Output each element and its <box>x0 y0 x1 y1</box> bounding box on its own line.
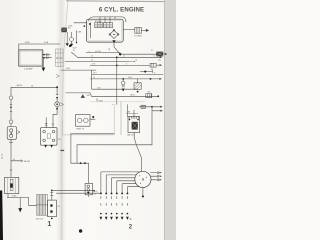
right vertical wire <box>139 107 152 145</box>
ground b <box>70 44 73 47</box>
ground triangle <box>18 208 22 212</box>
module cell row 2 <box>104 23 113 28</box>
svg-text:SPL: SPL <box>68 28 71 30</box>
faint low wire <box>90 101 145 103</box>
fuse block box <box>19 50 43 66</box>
gutter connector block B <box>56 59 64 67</box>
lamp circle 2 <box>9 120 13 124</box>
svg-text:TO TACH: TO TACH <box>134 35 142 38</box>
svg-text:R1: R1 <box>58 206 60 208</box>
svg-text:TO DIST: TO DIST <box>96 100 104 102</box>
engine outline (faint) <box>63 105 115 135</box>
svg-text:6: 6 <box>126 64 127 66</box>
svg-text:1: 1 <box>47 221 51 228</box>
wire y70 <box>61 69 96 71</box>
svg-text:6 CYL. ENGINE: 6 CYL. ENGINE <box>99 6 144 13</box>
svg-text:=0=: =0= <box>158 59 161 61</box>
bus wire 6 <box>91 78 160 80</box>
bus wire 5 <box>92 73 163 75</box>
wire drop b <box>70 32 72 37</box>
right top component <box>156 52 163 57</box>
wire to fuse box <box>19 44 60 50</box>
svg-text:5-30 AMP: 5-30 AMP <box>24 67 33 70</box>
ground at fuse box <box>42 68 46 72</box>
connector above resistor <box>51 191 53 201</box>
wire y93 with jog <box>66 93 158 96</box>
plug wire 1 <box>101 172 140 206</box>
plug row end mark <box>130 218 132 219</box>
starter solenoid box <box>5 177 19 193</box>
wire drop c <box>76 31 78 42</box>
wire to starter <box>10 161 12 178</box>
gauges box <box>76 115 90 127</box>
vertical distributor feed <box>116 57 118 104</box>
diagonal feed wire <box>72 52 78 57</box>
ignition control module <box>87 19 124 42</box>
svg-text:BAT DIST: BAT DIST <box>127 134 134 137</box>
bus wire 1 <box>86 52 120 54</box>
svg-text:4: 4 <box>89 51 90 53</box>
branch to right <box>11 160 21 162</box>
battery feed wire y87 <box>11 86 57 88</box>
module diamond <box>110 30 118 38</box>
svg-text:20 A: 20 A <box>44 41 49 44</box>
ground a <box>66 43 69 46</box>
arrow near circle <box>61 103 64 106</box>
svg-text:12: 12 <box>94 193 96 195</box>
svg-text:9A 16R: 9A 16R <box>24 160 31 163</box>
vertical feed to coil <box>127 105 134 117</box>
module right wire <box>123 28 135 30</box>
svg-text:IGN COIL: IGN COIL <box>36 219 44 221</box>
arrow at lamp box <box>17 131 20 134</box>
svg-text:14 BK: 14 BK <box>12 196 18 198</box>
regulator bottom arrows <box>44 145 47 148</box>
svg-text:7A 18: 7A 18 <box>130 93 135 96</box>
charge indicator circle <box>55 102 60 107</box>
gutter dark tick <box>60 150 64 151</box>
gutter connector block A <box>56 49 64 57</box>
distributor right lead 3 <box>151 179 159 181</box>
svg-text:16: 16 <box>1 157 3 159</box>
module ground <box>112 40 115 43</box>
bus wire 4 <box>90 64 150 66</box>
ignition coil 2 <box>128 117 140 133</box>
regulator feed wires <box>45 87 58 127</box>
svg-text:14: 14 <box>1 155 3 157</box>
wire corner to coil <box>29 198 37 206</box>
svg-text:6 BR: 6 BR <box>25 42 30 44</box>
svg-text:12: 12 <box>123 56 125 58</box>
plug wire 4 <box>117 181 135 206</box>
gauge sender circle <box>69 37 73 41</box>
svg-text:EL: EL <box>84 25 86 27</box>
sender dot <box>92 116 94 118</box>
bus wire 3 <box>65 60 135 62</box>
oil sender symbol <box>122 79 124 81</box>
svg-text:30: 30 <box>151 69 153 71</box>
wire y163 <box>71 163 89 183</box>
ground stub <box>19 198 21 209</box>
resistor block <box>137 79 139 83</box>
distributor bottom wire <box>142 188 144 196</box>
svg-text:10: 10 <box>91 60 93 62</box>
svg-text:B R W G: B R W G <box>95 21 102 23</box>
distributor right lead 1 <box>151 172 159 174</box>
module bottom wire <box>114 43 120 54</box>
inline connector on 7A wire <box>146 94 152 98</box>
plug wire 5 <box>122 184 136 206</box>
left lamp wire <box>10 87 12 126</box>
svg-text:15: 15 <box>151 50 153 52</box>
module left feed <box>74 22 87 24</box>
svg-text:TEMP OIL: TEMP OIL <box>76 128 84 130</box>
long wire y145 <box>77 144 152 146</box>
dashed lead <box>127 113 139 115</box>
tach connector <box>135 28 142 34</box>
drop verticals <box>71 134 77 163</box>
svg-text:12: 12 <box>93 77 95 79</box>
voltage regulator box <box>41 128 57 146</box>
svg-text:9A-16: 9A-16 <box>17 84 23 87</box>
long wire y134 <box>71 133 114 135</box>
svg-text:12 IGN: 12 IGN <box>95 51 101 53</box>
bus wire 2 <box>78 56 160 58</box>
spark plug wires fan <box>100 172 140 220</box>
gutter splice block <box>61 28 67 33</box>
plug wire 2 <box>106 175 136 206</box>
coil to distributor wire <box>134 133 141 172</box>
ignition coil winding <box>37 195 48 216</box>
connector stub 2 <box>42 57 45 59</box>
wire drop a <box>66 32 68 43</box>
module cell row 1 <box>95 23 103 28</box>
wire from fuse box stub down <box>42 58 44 68</box>
svg-text:16: 16 <box>73 50 75 52</box>
module inner wire <box>90 23 92 38</box>
dark junction mark <box>81 94 85 98</box>
distributor circle <box>135 171 151 187</box>
svg-text:6: 6 <box>154 55 155 57</box>
starter bottom wire <box>7 194 28 198</box>
stub with diamond <box>140 70 152 72</box>
module top wire <box>88 17 126 22</box>
plug wire 6 <box>127 187 139 206</box>
svg-text:16: 16 <box>13 159 15 161</box>
junction square <box>69 45 71 47</box>
drop wire to engine box <box>120 102 122 135</box>
wire below lamp box <box>10 139 13 161</box>
svg-text:18: 18 <box>135 60 137 62</box>
starter relay box <box>85 183 92 194</box>
svg-text:8: 8 <box>154 73 155 75</box>
ballast resistor box <box>48 200 57 217</box>
indicator lamp box <box>7 127 16 140</box>
coil feed wires right <box>52 190 95 192</box>
junction dot left of module <box>84 25 86 27</box>
svg-text:14: 14 <box>91 55 93 57</box>
wire to alternator <box>92 70 138 89</box>
small arrow above junction <box>56 74 59 77</box>
lamp circle 1 <box>9 96 13 100</box>
distributor right lead 2 <box>151 175 159 177</box>
plug wire 3 <box>112 178 136 206</box>
connector stub 1 <box>42 54 45 56</box>
